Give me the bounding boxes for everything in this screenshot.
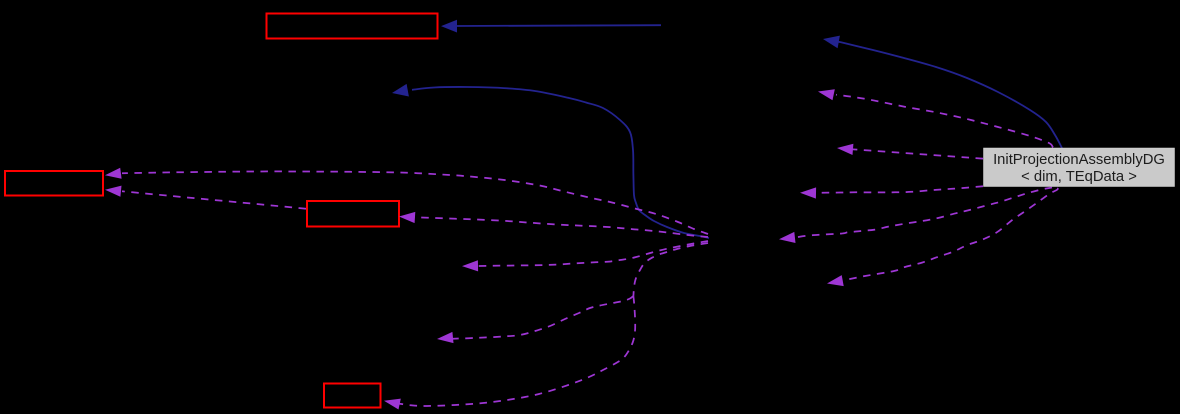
inheritance arrow (hidden base to top class box) [441,20,661,33]
usage arrow e (middle node to hidden class) [437,296,633,343]
class box (middle, hidden label) [307,201,399,227]
usage arrow g (InitProjectionAssemblyDG to hidden class) [818,89,1053,147]
svg-text:InitProjectionAssemblyDG: InitProjectionAssemblyDG [993,152,1165,168]
usage arrow b (mid class box to left class box) [105,186,306,209]
usage arrow d (middle node to hidden class) [462,241,708,271]
usage arrow c (middle node to mid class box) [399,212,708,237]
usage arrow h (InitProjectionAssemblyDG to hidden class) [837,144,983,159]
inheritance arrow (InitProjectionAssemblyDG to hidden base class) [823,36,1062,148]
usage arrows e+f shared trunk (from middle node) [633,243,708,296]
usage arrow i (InitProjectionAssemblyDG to hidden class) [800,186,983,198]
usage arrow j (InitProjectionAssemblyDG to middle node) [779,188,1052,244]
usage arrow k (InitProjectionAssemblyDG to hidden class) [827,188,1058,286]
svg-text:< dim, TEqData >: < dim, TEqData > [1021,169,1137,185]
class box (bottom, hidden label) [324,384,381,408]
class box (top, hidden label) [267,14,438,39]
usage arrow f (middle node to bottom class box) [384,296,635,410]
node InitProjectionAssemblyDG< dim, TEqData > (current class) [984,148,1175,187]
class box (left, hidden label) [5,171,103,196]
usage arrow a (middle node to left class box) [105,168,708,234]
inheritance arrow (hidden middle class to hidden base) [392,84,709,238]
